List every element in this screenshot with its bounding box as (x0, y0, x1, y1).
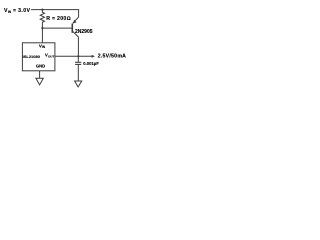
svg-text:VOUT: VOUT (45, 53, 55, 59)
svg-text:VIN: VIN (39, 44, 46, 50)
svg-text:VIN = 3.0V: VIN = 3.0V (4, 8, 30, 14)
svg-text:2.5V/50mA: 2.5V/50mA (98, 53, 127, 59)
svg-text:R = 200Ω: R = 200Ω (46, 16, 71, 22)
svg-text:GND: GND (36, 63, 45, 68)
svg-text:2N2905: 2N2905 (75, 29, 93, 35)
svg-text:ISL21080: ISL21080 (23, 54, 41, 59)
svg-text:0.001µF: 0.001µF (83, 61, 99, 66)
